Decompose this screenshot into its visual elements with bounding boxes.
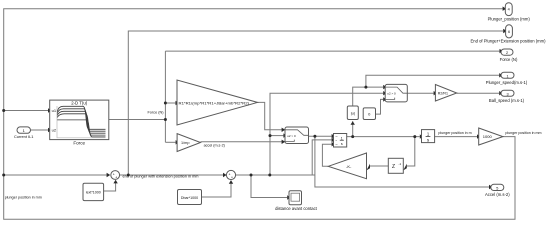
svg-text:R2/R1: R2/R1 [438, 92, 448, 96]
svg-text:+: + [231, 176, 233, 180]
svg-text:Plunger_speed(m.s-1): Plunger_speed(m.s-1) [486, 80, 528, 85]
svg-text:Force (N): Force (N) [500, 57, 518, 62]
svg-text:u2 > 0: u2 > 0 [387, 92, 396, 96]
svg-text:Force: Force [73, 140, 85, 145]
svg-text:end of plunger with extension: end of plunger with extension position i… [123, 175, 199, 179]
svg-text:+: + [115, 176, 117, 180]
svg-text:2-D T(u): 2-D T(u) [71, 101, 87, 106]
svg-text:1/mp: 1/mp [181, 141, 189, 145]
svg-text:|u|: |u| [351, 111, 355, 116]
svg-text:plunger position in mm: plunger position in mm [5, 196, 42, 200]
svg-text:accel (m.s-2): accel (m.s-2) [204, 144, 225, 148]
svg-text:2: 2 [506, 51, 508, 55]
svg-text:lext*1000: lext*1000 [86, 190, 101, 194]
svg-text:4: 4 [508, 8, 510, 12]
svg-text:1: 1 [341, 136, 343, 140]
svg-text:distance avant contact: distance avant contact [275, 206, 318, 211]
svg-text:s: s [341, 142, 343, 146]
svg-text:5: 5 [496, 187, 498, 191]
svg-text:R1*R1/(mp*R1*R1+JBar+mb*R2*R2): R1*R1/(mp*R1*R1+JBar+mb*R2*R2) [179, 101, 250, 105]
svg-text:Z: Z [392, 164, 395, 170]
svg-text:s: s [427, 138, 429, 143]
svg-text:-K-: -K- [346, 164, 352, 169]
svg-text:Plunger_position (mm): Plunger_position (mm) [488, 16, 531, 21]
svg-text:u2 > 0: u2 > 0 [287, 134, 296, 138]
svg-text:plunger position in mm: plunger position in mm [505, 131, 541, 135]
svg-text:End of Plunger+Extension posit: End of Plunger+Extension position (mm) [470, 39, 546, 44]
svg-text:6: 6 [508, 30, 510, 34]
svg-text:u2: u2 [52, 128, 57, 133]
svg-text:Accel (m.s-2): Accel (m.s-2) [485, 192, 510, 197]
svg-text:Current IL1: Current IL1 [14, 134, 33, 139]
svg-text:plunger position in m: plunger position in m [438, 131, 471, 135]
svg-text:Force (N): Force (N) [147, 111, 164, 115]
svg-text:1: 1 [506, 74, 508, 78]
svg-text:-1: -1 [399, 162, 402, 166]
svg-text:3: 3 [506, 92, 508, 96]
svg-text:Dbar*1000: Dbar*1000 [181, 196, 198, 200]
svg-text:Ball_speed (m.s-1): Ball_speed (m.s-1) [489, 98, 525, 103]
svg-text:1000: 1000 [483, 134, 493, 139]
svg-text:u1: u1 [52, 108, 57, 113]
